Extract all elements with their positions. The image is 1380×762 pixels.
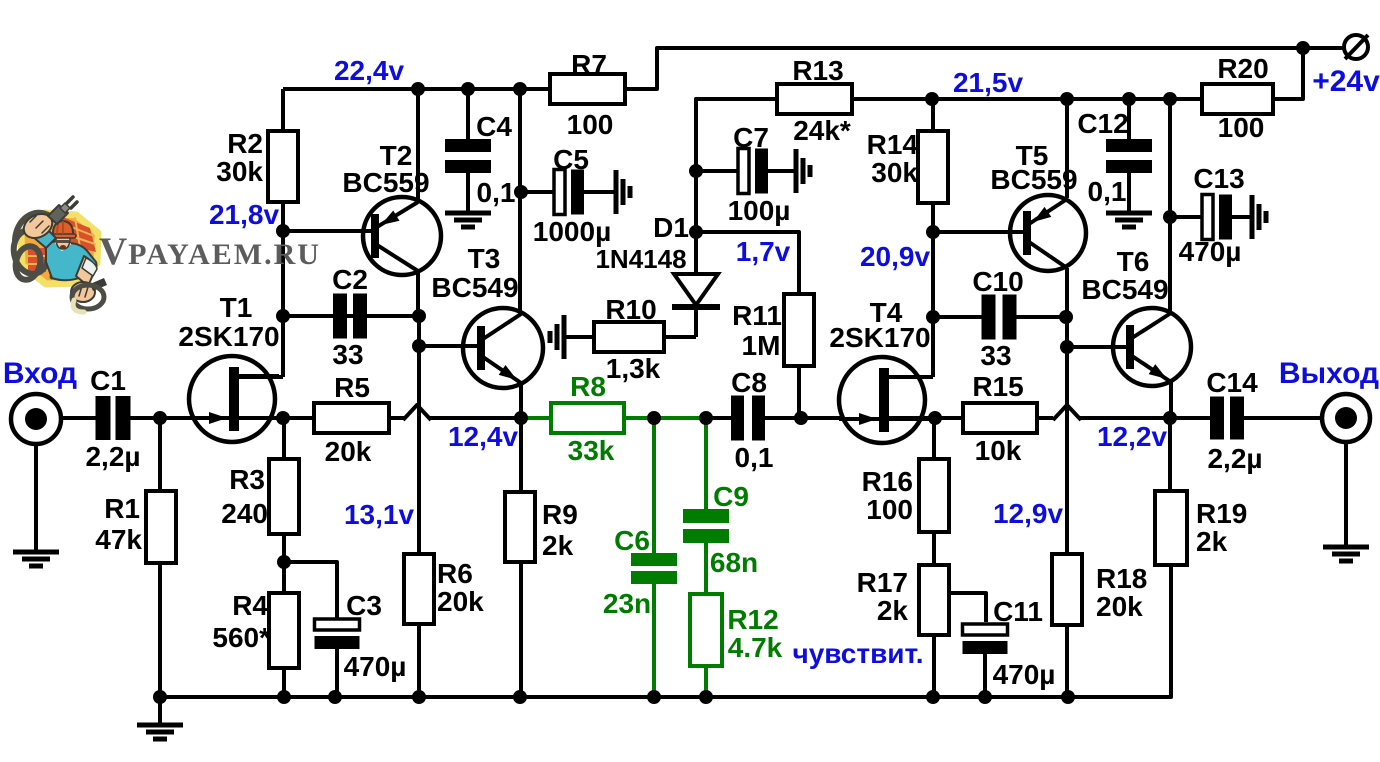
svg-text:BC559: BC559	[990, 164, 1077, 195]
svg-text:2k: 2k	[877, 595, 909, 626]
svg-text:C13: C13	[1193, 163, 1244, 194]
svg-text:240: 240	[221, 498, 268, 529]
svg-text:68n: 68n	[710, 547, 758, 578]
svg-text:R11: R11	[732, 300, 782, 331]
svg-text:2SK170: 2SK170	[829, 322, 930, 353]
svg-text:33: 33	[980, 340, 1011, 371]
svg-text:20k: 20k	[437, 586, 484, 617]
svg-text:C12: C12	[1077, 108, 1128, 139]
svg-text:T1: T1	[220, 292, 253, 323]
svg-text:R9: R9	[542, 499, 578, 530]
svg-text:22,4v: 22,4v	[334, 55, 404, 86]
svg-text:560*: 560*	[212, 622, 270, 653]
svg-text:R8: R8	[570, 371, 606, 402]
svg-text:R19: R19	[1196, 498, 1247, 529]
svg-text:BC549: BC549	[431, 272, 518, 303]
svg-text:C9: C9	[713, 481, 749, 512]
svg-text:33k: 33k	[568, 435, 615, 466]
svg-text:0,1: 0,1	[477, 177, 516, 208]
svg-text:2k: 2k	[1196, 526, 1228, 557]
svg-text:Вход: Вход	[3, 357, 77, 390]
svg-text:R1: R1	[104, 493, 140, 524]
svg-text:R3: R3	[229, 464, 265, 495]
svg-text:C3: C3	[346, 590, 382, 621]
svg-text:470µ: 470µ	[344, 651, 407, 682]
svg-text:100: 100	[1218, 112, 1265, 143]
svg-text:R12: R12	[727, 604, 778, 635]
svg-text:2k: 2k	[542, 530, 574, 561]
svg-text:VPAYAEM.RU: VPAYAEM.RU	[99, 230, 321, 273]
svg-text:47k: 47k	[95, 524, 142, 555]
svg-text:BC549: BC549	[1081, 274, 1168, 305]
svg-text:1000µ: 1000µ	[533, 216, 611, 247]
svg-text:12,4v: 12,4v	[448, 421, 518, 452]
svg-text:10k: 10k	[975, 435, 1022, 466]
svg-text:C7: C7	[733, 122, 769, 153]
svg-text:2,2µ: 2,2µ	[1207, 443, 1262, 474]
svg-text:2,2µ: 2,2µ	[85, 441, 140, 472]
svg-text:100: 100	[866, 494, 913, 525]
svg-text:30k: 30k	[216, 156, 263, 187]
svg-text:T6: T6	[1117, 246, 1150, 277]
svg-text:24k*: 24k*	[793, 115, 851, 146]
svg-text:1,7v: 1,7v	[736, 236, 791, 267]
svg-text:20k: 20k	[1096, 591, 1143, 622]
svg-text:C2: C2	[332, 264, 368, 295]
svg-text:BC559: BC559	[342, 167, 429, 198]
svg-text:C10: C10	[972, 266, 1023, 297]
svg-text:R2: R2	[227, 128, 263, 159]
svg-text:20,9v: 20,9v	[860, 241, 930, 272]
svg-text:чувствит.: чувствит.	[792, 638, 923, 669]
svg-text:33: 33	[332, 339, 363, 370]
svg-text:470µ: 470µ	[1179, 236, 1242, 267]
svg-text:C4: C4	[476, 111, 512, 142]
svg-text:R17: R17	[857, 567, 908, 598]
svg-text:23n: 23n	[603, 588, 651, 619]
svg-text:4.7k: 4.7k	[728, 632, 783, 663]
svg-text:C14: C14	[1206, 367, 1258, 398]
svg-text:12,9v: 12,9v	[993, 498, 1063, 529]
svg-text:T3: T3	[468, 243, 501, 274]
svg-text:R4: R4	[232, 590, 268, 621]
svg-text:D1: D1	[653, 212, 689, 243]
svg-text:R14: R14	[867, 129, 919, 160]
svg-text:+24v: +24v	[1312, 65, 1380, 98]
svg-text:C6: C6	[614, 525, 650, 556]
svg-text:C5: C5	[553, 144, 589, 175]
svg-text:12,2v: 12,2v	[1097, 421, 1167, 452]
svg-text:21,8v: 21,8v	[209, 199, 279, 230]
svg-text:Выход: Выход	[1279, 357, 1379, 390]
svg-text:470µ: 470µ	[993, 659, 1056, 690]
svg-text:R18: R18	[1096, 563, 1147, 594]
svg-text:C1: C1	[90, 365, 126, 396]
svg-text:R7: R7	[571, 49, 607, 80]
svg-text:R15: R15	[972, 371, 1023, 402]
svg-text:C11: C11	[993, 596, 1043, 627]
svg-text:30k: 30k	[871, 157, 918, 188]
svg-text:0,1: 0,1	[1088, 176, 1127, 207]
svg-text:C8: C8	[731, 367, 767, 398]
svg-text:R16: R16	[862, 466, 913, 497]
svg-text:20k: 20k	[325, 436, 372, 467]
svg-text:1,3k: 1,3k	[606, 353, 661, 384]
svg-text:R5: R5	[334, 372, 370, 403]
svg-text:1N4148: 1N4148	[595, 244, 686, 274]
svg-text:1M: 1M	[742, 330, 781, 361]
svg-text:21,5v: 21,5v	[953, 67, 1023, 98]
svg-text:100: 100	[567, 109, 614, 140]
svg-text:R10: R10	[605, 294, 656, 325]
svg-text:R13: R13	[792, 55, 843, 86]
svg-text:2SK170: 2SK170	[178, 321, 279, 352]
svg-text:100µ: 100µ	[728, 195, 791, 226]
svg-text:R20: R20	[1217, 53, 1268, 84]
svg-text:13,1v: 13,1v	[344, 499, 414, 530]
svg-text:0,1: 0,1	[735, 442, 774, 473]
svg-text:R6: R6	[437, 558, 473, 589]
